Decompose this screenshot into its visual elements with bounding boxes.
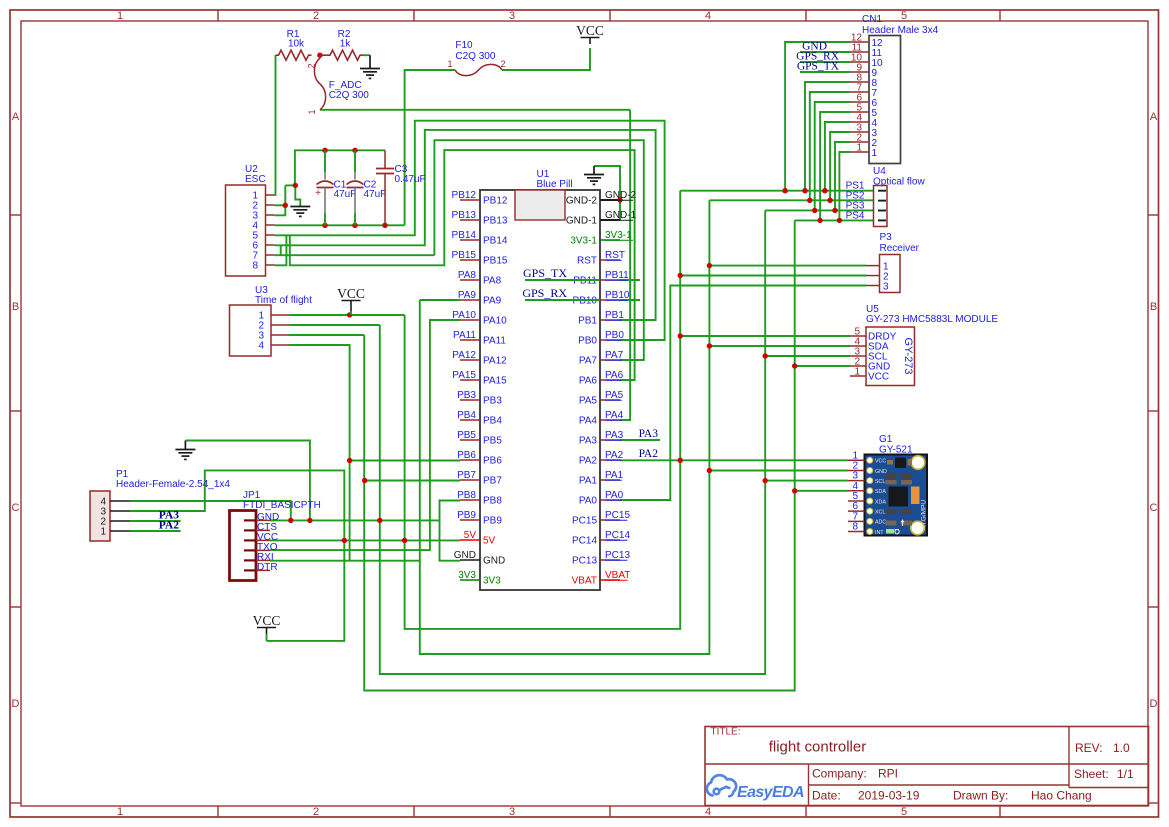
svg-text:PA6: PA6 [579,376,598,387]
wire trunk x765 PS3 to bottom run [380,210,765,674]
svg-text:47uF: 47uF [364,189,387,200]
wire to U2 ground [295,185,300,206]
U5 pin 5 DRDY [850,335,866,337]
U1 right pin GND-2 [600,199,620,201]
ground bars above P1 [175,449,195,451]
U1 left pin PB12 [460,199,480,201]
wire R1 left lead down to U2 pin1 [274,55,275,195]
svg-text:PB12: PB12 [483,196,508,207]
svg-text:PB15: PB15 [452,250,477,261]
G1 pin 7 [848,520,865,522]
svg-text:A: A [1150,111,1158,123]
svg-text:PA5: PA5 [605,390,624,401]
U1 right pin PA2 [600,459,620,461]
wire P1 pin1 PA2 stub [130,530,181,532]
svg-text:Drawn By:: Drawn By: [953,789,1008,803]
wire U5 SCL branch [765,355,850,357]
svg-text:VCC: VCC [337,286,365,301]
U4 pin PS2 [878,200,886,202]
U2 pin 1 [266,194,275,196]
svg-text:PA9: PA9 [458,290,477,301]
U2 pin 7 [266,254,275,256]
U1 left pin 5V [460,539,480,541]
U3 pin 1 [271,314,289,316]
U1 left pin PA9 [460,299,480,301]
svg-text:3: 3 [883,282,889,293]
U1 left pin PB5 [460,439,480,441]
svg-text:RST: RST [577,256,597,267]
U1 left pin PB7 [460,479,480,481]
svg-text:C2Q 300: C2Q 300 [455,51,495,62]
svg-text:PC13: PC13 [605,550,630,561]
wire GPS_TX label CN1 pin9 [800,71,850,73]
U1 right pin PA1 [600,479,620,481]
wire U2 pin8 to PA6 [274,235,286,265]
svg-text:PB6: PB6 [483,456,502,467]
wire G1 pin3 branch [765,480,848,482]
wire PA2 row to G1 pin1 [620,459,848,461]
svg-text:PB4: PB4 [457,410,476,421]
svg-text:CN1: CN1 [862,14,882,25]
U1 left pin PB14 [460,239,480,241]
wire CN1 pin1 down to PS4 [839,152,850,220]
column ticks [217,10,219,21]
svg-text:PB14: PB14 [483,236,508,247]
svg-text:GND-1: GND-1 [566,216,598,227]
wire U1 top ground to GND-2 GND-1 [594,166,620,220]
svg-text:GND-1: GND-1 [605,210,637,221]
svg-text:GND-2: GND-2 [566,196,598,207]
svg-text:GY-273: GY-273 [902,338,914,375]
svg-text:PB11: PB11 [573,276,597,287]
wire CN1 pin6 down to PS3 [815,102,850,210]
wire CN1 pin8 down to PS1 [805,82,850,191]
svg-text:5V: 5V [464,530,477,541]
svg-text:PA10: PA10 [452,310,476,321]
P3 pin 1 [866,265,880,267]
svg-text:PC14: PC14 [572,536,597,547]
svg-text:2: 2 [313,806,319,818]
wire P3 pin1 branch [709,265,866,267]
svg-text:VCC: VCC [875,459,886,465]
wire JP1 GND row to U1 GND [270,519,440,521]
ground bars at R2 [360,68,380,70]
wire PS2 row [709,199,874,201]
wire CN1 pin2 down to PS3 [835,142,850,210]
wire U2 pin2 junction branch [274,204,285,206]
svg-text:5V: 5V [483,536,496,547]
wire ground above P1 to JP1 GND row [185,441,310,521]
svg-text:2: 2 [500,59,505,69]
svg-text:Date:: Date: [812,789,841,803]
U5 pin 2 GND [850,365,866,367]
wire pin7 row link [281,254,435,256]
svg-text:PA2: PA2 [605,450,624,461]
U2 pin 8 [266,264,275,266]
wire VCC bottom stem green [266,634,268,641]
svg-text:PB12: PB12 [452,190,477,201]
U1 left pin GND [460,559,480,561]
svg-text:PC15: PC15 [605,510,630,521]
wire PB6 row [350,460,460,462]
svg-text:PA3: PA3 [605,430,624,441]
ground at R2 [369,55,371,68]
svg-text:PA11: PA11 [453,330,476,341]
svg-text:PB15: PB15 [483,256,508,267]
U4 pin PS3 [878,210,886,212]
CN1 pin 8 [850,81,869,83]
U1 left pin PB8 [460,499,480,501]
wire U3 pin3 link [289,334,364,336]
wire JP1 VCC 5V row [270,539,460,541]
svg-text:1: 1 [447,59,452,69]
svg-text:PB5: PB5 [483,436,502,447]
wire cap top rail [295,150,385,185]
wire CN1 pin4 down to PS1 [825,122,850,191]
wire PS4 row [795,219,874,221]
svg-text:GPS_RX: GPS_RX [522,286,567,300]
U1 right pin PA6 [600,379,620,381]
svg-text:XDA: XDA [875,499,886,505]
svg-text:PB0: PB0 [578,336,597,347]
U1 right pin PC13 [600,559,620,561]
svg-text:1.0: 1.0 [1113,741,1130,755]
svg-text:VCC: VCC [576,23,604,38]
U1 left pin PB3 [460,399,480,401]
U2 pin 2 [266,204,275,206]
svg-text:EasyEDA: EasyEDA [737,784,804,801]
capacitor C1 [324,150,326,172]
svg-text:PB3: PB3 [483,396,502,407]
U5 pin 3 SCL [850,355,866,357]
svg-text:PA12: PA12 [483,356,507,367]
G1 pin 4 [848,490,865,492]
row ticks [10,214,21,216]
JP1 pin CTS [244,529,256,531]
P1 pin 1 [110,530,130,532]
wire GPS_TX at PB11 [525,279,600,281]
svg-text:GPS_TX: GPS_TX [523,266,567,280]
svg-text:8: 8 [252,261,258,272]
svg-text:ADO: ADO [875,520,886,526]
svg-text:RST: RST [605,250,625,261]
svg-text:PA5: PA5 [579,396,598,407]
U1 left pin PB15 [460,259,480,261]
svg-text:DTR: DTR [257,562,278,573]
wire GPS_RX label CN1 pin10 [800,61,850,63]
CN1 pin 6 [850,101,869,103]
wire PA3 net stub [620,439,660,441]
wire G1 pin2 branch [709,470,848,472]
svg-text:ESC: ESC [245,174,266,185]
svg-text:Company:: Company: [812,767,867,781]
wire F10 left lead to cap rail [405,70,455,225]
U1 left pin PB6 [460,459,480,461]
svg-text:3V3-1: 3V3-1 [570,236,597,247]
svg-text:TITLE:: TITLE: [711,727,741,738]
CN1 pin 1 [850,151,869,153]
U1 left pin PA15 [460,379,480,381]
wire PA9 pin link [420,299,460,301]
wire GPS_RX at PB10 [525,299,600,301]
U1 left pin PA12 [460,359,480,361]
svg-text:C2Q 300: C2Q 300 [329,90,369,101]
svg-text:1: 1 [307,109,317,114]
svg-text:G1: G1 [879,434,893,445]
U1 left pin PB9 [460,519,480,521]
svg-text:5: 5 [901,806,907,818]
svg-text:B: B [12,301,19,313]
U1 right pin PA0 [600,499,620,501]
wire U3 pin4 down to PB6 row [289,345,350,561]
svg-text:PA2: PA2 [579,456,598,467]
wire P1 pin3 up and right to 5V trunk [130,470,344,641]
wire GND-1 pin [600,219,620,221]
svg-text:1k: 1k [340,39,352,50]
U1 right pin PB10 [600,299,620,301]
svg-text:GND: GND [483,556,505,567]
svg-text:3V3-1: 3V3-1 [605,230,632,241]
svg-text:PA8: PA8 [483,276,502,287]
wire U5 DRDY branch [680,335,850,337]
svg-text:PB14: PB14 [452,230,477,241]
svg-text:VCC: VCC [868,372,889,383]
U1 right pin PB11 [600,279,620,281]
wire U2 pin7 to PA7 [434,140,643,360]
fuse F_ADC [314,58,325,110]
wire trunk x709 PS2 to bottom run [420,200,710,654]
wire CN1 pin12 down to PS1 [785,42,850,191]
svg-text:2: 2 [313,10,319,22]
svg-text:8: 8 [852,521,858,532]
svg-text:1: 1 [854,367,860,378]
P1 pin 2 [110,520,130,522]
capacitor C2 [354,150,356,172]
CN1 pin 12 [850,41,869,43]
U2 pin 5 [266,234,275,236]
wire PA0 to P3 pin3 [620,286,866,501]
wire GND-2 pin [600,199,620,201]
U2 pin 3 [266,214,275,216]
svg-text:1: 1 [872,148,878,159]
svg-text:PA15: PA15 [452,370,476,381]
wire junction to pin2 vertical link [285,184,295,186]
svg-text:PA10: PA10 [483,316,507,327]
P3 pin 3 [866,285,880,287]
svg-text:PA12: PA12 [452,350,476,361]
svg-text:GND-2: GND-2 [605,190,637,201]
wire U2 pin7 jog [274,245,280,255]
U1 right pin PC15 [600,519,620,521]
svg-text:PC15: PC15 [572,516,597,527]
ground bars at U2 [290,206,310,208]
svg-text:Header-Female-2.54_1x4: Header-Female-2.54_1x4 [116,479,230,490]
svg-text:PC13: PC13 [572,556,597,567]
U1 right pin PC14 [600,539,620,541]
G1 pin 3 [848,480,865,482]
svg-text:PB0: PB0 [605,330,624,341]
wire U2 pin2-pin3 vertical [274,185,285,215]
wire F10 right to VCC stem [502,48,590,70]
wire U5 GND branch [795,365,850,367]
ground above P1 [184,441,186,450]
svg-text:A: A [12,111,20,123]
U1 right pin PB0 [600,339,620,341]
wire RXI row to x420 [270,560,420,562]
svg-text:PB13: PB13 [452,210,477,221]
U1 right pin PA7 [600,359,620,361]
svg-text:PB13: PB13 [483,216,508,227]
svg-text:5: 5 [901,10,907,22]
svg-text:PB10: PB10 [573,296,598,307]
ground above U1 [593,166,595,175]
wire U2 pin5 to PB0 [274,121,664,340]
svg-text:1: 1 [100,527,106,538]
U1 left pin PA8 [460,279,480,281]
wire PB7 row [365,480,460,482]
wire PB10 pin label stub [620,299,640,301]
svg-text:PB1: PB1 [578,316,597,327]
svg-text:4: 4 [705,10,711,22]
U1 right pin GND-1 [600,219,620,221]
svg-text:4: 4 [258,341,264,352]
wire F_ADC output to x=630 [320,109,630,111]
svg-text:PB6: PB6 [457,450,476,461]
svg-text:PA1: PA1 [605,470,624,481]
svg-text:3: 3 [509,10,515,22]
svg-text:GND: GND [454,550,476,561]
JP1 pin GND [244,519,256,521]
wire CN1 pin5 down to PS4 [820,112,850,220]
svg-text:PA8: PA8 [458,270,477,281]
svg-text:B: B [1150,301,1157,313]
svg-text:3V3: 3V3 [458,570,476,581]
svg-text:10k: 10k [288,39,305,50]
U5 pin 1 VCC [850,375,866,377]
svg-text:D: D [1150,698,1158,710]
svg-text:PB11: PB11 [605,270,629,281]
U2 pin 4 [266,224,275,226]
P3 pin 2 [866,275,880,277]
svg-text:PA4: PA4 [605,410,624,421]
CN1 pin 5 [850,111,869,113]
G1 pin 2 [848,469,865,471]
svg-text:PA7: PA7 [579,356,598,367]
wire pin8 jog second vertical [290,150,635,380]
wire GND label CN1 pin11 [800,51,850,53]
svg-text:PB9: PB9 [457,510,476,521]
svg-text:PB8: PB8 [483,496,502,507]
wire R2 to ground stem [363,54,370,56]
svg-text:Blue Pill: Blue Pill [537,179,573,190]
U1 right pin PB1 [600,319,620,321]
svg-text:Receiver: Receiver [880,243,920,254]
CN1 pin 4 [850,121,869,123]
svg-text:PA4: PA4 [579,416,598,427]
svg-text:PB5: PB5 [457,430,476,441]
wire PB8 down GND jog to U1 GND pin [440,501,461,561]
svg-text:PA2: PA2 [639,448,659,460]
svg-text:PA6: PA6 [605,370,624,381]
CN1 pin 10 [850,61,869,63]
CN1 pin 2 [850,141,869,143]
U1 right pin VBAT [600,579,620,581]
svg-text:C: C [1150,502,1158,514]
svg-text:P3: P3 [880,232,893,243]
P1 pin 4 [110,500,130,502]
junction dots [317,53,322,58]
svg-text:Hao Chang: Hao Chang [1031,789,1092,803]
svg-text:PB7: PB7 [483,476,502,487]
P1 pin 3 [110,510,130,512]
svg-text:1/1: 1/1 [1117,767,1134,781]
CN1 pin 9 [850,71,869,73]
svg-text:PB1: PB1 [605,310,624,321]
U2 pin 6 [266,244,275,246]
svg-text:0.47uF: 0.47uF [395,174,426,185]
svg-text:PA2: PA2 [159,520,179,532]
wire U5 SDA branch [709,345,850,347]
svg-text:SDA: SDA [875,489,886,495]
svg-text:2019-03-19: 2019-03-19 [858,789,920,803]
svg-text:INT: INT [875,530,884,536]
wire CN1 pin3 down to PS2 [830,132,850,200]
svg-text:PB3: PB3 [457,390,476,401]
U1 right pin PA5 [600,399,620,401]
U1 right pin PA4 [600,419,620,421]
JP1 pin RXI [244,559,256,561]
svg-text:4: 4 [705,806,711,818]
svg-text:VBAT: VBAT [572,576,597,587]
CN1 pin 3 [850,131,869,133]
U1 top gray rect [515,190,565,220]
G1 pin 6 [848,510,865,512]
wire CN1 pin7 down to PS2 [810,92,850,200]
wire trunk x680 PS1 to bottom run [405,191,681,629]
svg-text:PA15: PA15 [483,376,507,387]
svg-text:GND: GND [875,469,887,475]
svg-text:PA0: PA0 [605,490,624,501]
svg-text:U4: U4 [873,166,886,177]
svg-text:PA7: PA7 [605,350,624,361]
wire PB11 pin label stub [620,279,640,281]
svg-text:ITG/MPU: ITG/MPU [921,500,928,527]
svg-text:3V3: 3V3 [483,576,501,587]
svg-text:Sheet:: Sheet: [1074,767,1109,781]
svg-text:VBAT: VBAT [605,570,630,581]
U1 left pin PA11 [460,339,480,341]
U1 left pin PB4 [460,419,480,421]
svg-text:flight controller: flight controller [769,739,867,756]
U1 left pin PA10 [460,319,480,321]
wire U3 pin1 VCC to 5V trunk [289,314,405,316]
G1 pin 8 [848,530,865,532]
svg-text:PC14: PC14 [605,530,630,541]
wire F_ADC column down to PA4 [620,110,630,420]
svg-text:PB10: PB10 [605,290,630,301]
svg-text:XCL: XCL [875,509,885,515]
JP1 pin TXO [244,549,256,551]
svg-text:Header Male 3x4: Header Male 3x4 [862,25,939,36]
svg-text:1: 1 [117,806,123,818]
svg-text:PA3: PA3 [639,428,659,440]
U1 right pin RST [600,259,620,261]
U3 pin 2 [271,324,289,326]
U3 pin 3 [271,334,289,336]
U1 right pin PA3 [600,439,620,441]
svg-text:SCL: SCL [875,479,885,485]
svg-text:PA3: PA3 [579,436,598,447]
